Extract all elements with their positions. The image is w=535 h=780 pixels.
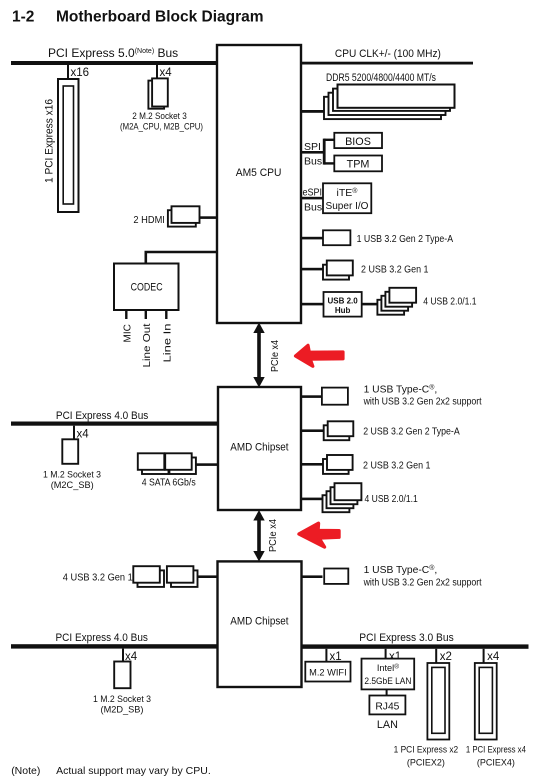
wire SPI bracket vertical bbox=[323, 139, 326, 165]
svg-text:(PCIEX2): (PCIEX2) bbox=[407, 758, 445, 769]
svg-text:Bus: Bus bbox=[304, 202, 322, 214]
svg-text:PCI Express 5.0(Note) Bus: PCI Express 5.0(Note) Bus bbox=[48, 46, 178, 60]
svg-text:Line Out: Line Out bbox=[142, 323, 153, 367]
svg-text:Super I/O: Super I/O bbox=[326, 200, 369, 212]
slot 1 PCI Express x2 (PCIEX2) bbox=[394, 663, 459, 769]
svg-text:(M2D_SB): (M2D_SB) bbox=[101, 705, 144, 716]
svg-text:x4: x4 bbox=[160, 67, 173, 79]
svg-text:BIOS: BIOS bbox=[345, 136, 371, 148]
svg-text:(Note): (Note) bbox=[11, 765, 40, 777]
wire USB gen2 typeA from chipset bbox=[301, 429, 324, 432]
slot 1 PCI Express x16 bbox=[44, 79, 79, 212]
wire TypeC from chipset (middle) bbox=[301, 395, 322, 398]
svg-text:1 M.2 Socket 3: 1 M.2 Socket 3 bbox=[43, 470, 101, 481]
svg-text:PCI Express 4.0 Bus: PCI Express 4.0 Bus bbox=[56, 632, 149, 644]
svg-text:(M2C_SB): (M2C_SB) bbox=[51, 480, 94, 491]
port 4 SATA 6Gb/s boxes bbox=[138, 453, 196, 488]
svg-text:SPI: SPI bbox=[304, 141, 321, 153]
svg-text:1 PCI Express x16: 1 PCI Express x16 bbox=[44, 99, 56, 183]
codec box bbox=[114, 264, 179, 311]
chipset AMD middle bbox=[218, 387, 301, 510]
wire SATA to chipset bbox=[196, 463, 218, 466]
svg-text:LAN: LAN bbox=[377, 719, 398, 731]
label 1 USB Type-C (bottom) bbox=[363, 564, 482, 589]
wire x2 drop (PCIEX2) bbox=[435, 649, 437, 663]
svg-text:x16: x16 bbox=[71, 67, 90, 79]
svg-text:x2: x2 bbox=[440, 651, 452, 663]
wire SPI from CPU bbox=[301, 151, 325, 154]
note bbox=[11, 765, 211, 777]
wire MIC stub bbox=[125, 310, 127, 319]
svg-text:Line In: Line In bbox=[163, 324, 174, 363]
wire to TPM bbox=[324, 162, 335, 164]
wire Line Out stub bbox=[145, 310, 147, 319]
port RJ45 bbox=[369, 696, 405, 715]
svg-text:2 HDMI: 2 HDMI bbox=[133, 214, 165, 226]
wire TypeC from chipset (bottom) bbox=[302, 575, 323, 578]
svg-text:(PCIEX4): (PCIEX4) bbox=[477, 758, 515, 769]
svg-text:Bus: Bus bbox=[304, 156, 322, 168]
svg-text:1 PCI Express x2: 1 PCI Express x2 bbox=[394, 745, 459, 756]
svg-text:Actual support may vary by CPU: Actual support may vary by CPU. bbox=[56, 765, 211, 777]
svg-text:4 USB 2.0/1.1: 4 USB 2.0/1.1 bbox=[423, 297, 477, 308]
svg-text:4 SATA 6Gb/s: 4 SATA 6Gb/s bbox=[142, 478, 196, 489]
PCI Express 5.0 bus bbox=[11, 61, 217, 65]
port 4 USB 2.0/1.1 stack (middle) bbox=[323, 483, 362, 512]
port 1 USB Type-C box (bottom) bbox=[324, 569, 348, 584]
port 4 USB 3.2 Gen 1 boxes bbox=[133, 566, 197, 587]
port 1 USB Type-C box (middle) bbox=[322, 388, 348, 405]
svg-text:4 USB 2.0/1.1: 4 USB 2.0/1.1 bbox=[365, 494, 419, 505]
port 2 USB 3.2 Gen 1 stack (middle) bbox=[323, 455, 353, 474]
chip BIOS bbox=[334, 133, 382, 148]
wire to BIOS bbox=[324, 139, 335, 141]
port 2 USB 3.2 Gen 2 Type-A stack bbox=[324, 421, 354, 440]
svg-text:with USB 3.2 Gen 2x2 support: with USB 3.2 Gen 2x2 support bbox=[363, 578, 482, 589]
memory DIMM stack bbox=[324, 85, 455, 120]
svg-text:1 M.2 Socket 3: 1 M.2 Socket 3 bbox=[93, 694, 151, 705]
arrow PCIe x4 chipset-chipset bbox=[253, 510, 278, 562]
title bbox=[12, 9, 264, 26]
svg-text:CODEC: CODEC bbox=[131, 282, 163, 294]
wire HDMI to CPU bbox=[200, 216, 218, 219]
wire eSPI from CPU bbox=[301, 197, 323, 200]
wire USB gen1 to bottom chipset bbox=[198, 575, 218, 578]
wire USB2 from chipset bbox=[301, 498, 323, 501]
svg-text:2 USB 3.2 Gen 1: 2 USB 3.2 Gen 1 bbox=[361, 265, 429, 276]
svg-text:2 USB 3.2 Gen 1: 2 USB 3.2 Gen 1 bbox=[363, 460, 431, 471]
svg-text:2 USB 3.2 Gen 2 Type-A: 2 USB 3.2 Gen 2 Type-A bbox=[363, 427, 460, 438]
PCI Express 3.0 bus bbox=[302, 644, 529, 648]
svg-text:2.5GbE LAN: 2.5GbE LAN bbox=[364, 676, 411, 686]
wire USB gen2 typeA from CPU bbox=[301, 237, 323, 240]
svg-text:USB 2.0: USB 2.0 bbox=[327, 297, 358, 306]
svg-text:with USB 3.2 Gen 2x2 support: with USB 3.2 Gen 2x2 support bbox=[363, 397, 482, 408]
arrow PCIe x4 CPU-chipset bbox=[253, 323, 280, 388]
svg-text:4 USB 3.2 Gen 1: 4 USB 3.2 Gen 1 bbox=[63, 573, 133, 584]
hub USB 2.0 bbox=[324, 292, 362, 317]
chip TPM bbox=[334, 156, 382, 172]
svg-text:1-2: 1-2 bbox=[12, 9, 34, 26]
module M.2 WIFI bbox=[305, 662, 350, 682]
svg-text:2 M.2 Socket 3: 2 M.2 Socket 3 bbox=[132, 111, 187, 122]
annotation red arrow 1 bbox=[296, 345, 344, 366]
port HDMI stack bbox=[168, 206, 200, 226]
svg-text:PCI Express 4.0 Bus: PCI Express 4.0 Bus bbox=[56, 410, 149, 422]
slot 1 PCI Express x4 (PCIEX4) bbox=[466, 663, 527, 769]
PCI Express 4.0 bus (middle) bbox=[11, 422, 218, 426]
port 2 USB 3.2 Gen 1 stack bbox=[323, 261, 353, 280]
svg-text:M.2 WIFI: M.2 WIFI bbox=[309, 668, 347, 679]
svg-text:PCIe x4: PCIe x4 bbox=[270, 340, 281, 372]
svg-text:x4: x4 bbox=[487, 651, 500, 663]
label 1 USB Type-C (middle) bbox=[363, 384, 482, 408]
svg-text:PCI Express 3.0 Bus: PCI Express 3.0 Bus bbox=[359, 632, 454, 644]
wire USB gen1 from chipset bbox=[301, 463, 323, 466]
wire USB gen1 from CPU bbox=[301, 268, 323, 271]
chip Intel 2.5GbE LAN bbox=[362, 659, 415, 690]
svg-text:AMD Chipset: AMD Chipset bbox=[230, 616, 289, 628]
svg-text:DDR5 5200/4800/4400 MT/s: DDR5 5200/4800/4400 MT/s bbox=[326, 72, 436, 84]
port 4 USB 2.0/1.1 stack bbox=[377, 288, 416, 315]
wire x4 drop (M.2 CPU) bbox=[156, 65, 158, 79]
svg-text:1 PCI Express x4: 1 PCI Express x4 bbox=[466, 745, 527, 756]
port 1 USB 3.2 Gen 2 Type-A box bbox=[323, 230, 350, 245]
wire x4 drop (M2D) bbox=[122, 649, 124, 662]
chipset AMD bottom bbox=[218, 561, 302, 687]
cpu AM5 bbox=[217, 45, 301, 323]
svg-text:1 USB Type-C®,: 1 USB Type-C®, bbox=[364, 564, 438, 576]
svg-text:1 USB 3.2 Gen 2 Type-A: 1 USB 3.2 Gen 2 Type-A bbox=[357, 234, 454, 245]
svg-text:PCIe x4: PCIe x4 bbox=[268, 519, 279, 552]
M.2 Socket 3 (M2D_SB) bbox=[93, 662, 151, 716]
wire LAN chip to RJ45 bbox=[386, 689, 388, 695]
svg-text:AM5 CPU: AM5 CPU bbox=[236, 167, 282, 179]
chip iTE Super I/O bbox=[323, 183, 371, 213]
M.2 Socket 3 (M2C_SB) bbox=[43, 439, 101, 491]
svg-text:(M2A_CPU, M2B_CPU): (M2A_CPU, M2B_CPU) bbox=[120, 122, 203, 133]
wire CPU to DIMM bbox=[301, 110, 325, 113]
wire x16 drop bbox=[67, 65, 69, 79]
CPU CLK bus bbox=[301, 62, 473, 65]
wire x4 drop (PCIEX4) bbox=[483, 649, 485, 663]
svg-text:eSPI: eSPI bbox=[303, 187, 323, 199]
svg-text:Hub: Hub bbox=[335, 306, 351, 315]
svg-text:1 USB Type-C®,: 1 USB Type-C®, bbox=[364, 384, 438, 396]
wire x1 drop (LAN) bbox=[385, 649, 387, 659]
wire x4 drop (M2C) bbox=[73, 426, 75, 440]
wire CODEC to CPU bbox=[146, 252, 217, 264]
svg-text:MIC: MIC bbox=[123, 324, 134, 342]
wire Line In stub bbox=[165, 310, 167, 319]
svg-text:RJ45: RJ45 bbox=[375, 702, 399, 713]
svg-text:CPU CLK+/- (100 MHz): CPU CLK+/- (100 MHz) bbox=[335, 48, 441, 60]
PCI Express 4.0 bus (bottom) bbox=[11, 644, 218, 648]
wire x1 drop (M.2 WIFI) bbox=[325, 649, 327, 662]
svg-text:TPM: TPM bbox=[347, 159, 370, 171]
annotation red arrow 2 bbox=[299, 523, 339, 547]
svg-text:AMD Chipset: AMD Chipset bbox=[230, 442, 289, 454]
svg-text:Motherboard Block Diagram: Motherboard Block Diagram bbox=[56, 9, 264, 26]
wire hub to USB2 stack bbox=[362, 303, 378, 306]
M.2 Socket 3 (M2A_CPU, M2B_CPU) stack bbox=[120, 78, 203, 132]
wire USB hub from CPU bbox=[301, 303, 324, 306]
